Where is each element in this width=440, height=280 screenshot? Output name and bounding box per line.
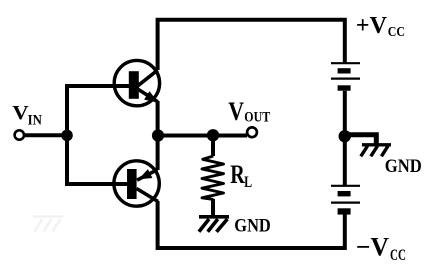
svg-text:OUT: OUT — [244, 110, 270, 126]
svg-text:CC: CC — [388, 25, 405, 40]
svg-text:V: V — [228, 97, 244, 126]
svg-text:R: R — [230, 160, 245, 189]
svg-text:−V: −V — [356, 233, 389, 262]
svg-text:GND: GND — [385, 157, 422, 177]
svg-text:IN: IN — [28, 112, 43, 128]
svg-text:+V: +V — [356, 13, 388, 39]
svg-text:L: L — [244, 174, 252, 191]
svg-text:CC: CC — [390, 247, 406, 264]
svg-text:GND: GND — [234, 217, 270, 237]
